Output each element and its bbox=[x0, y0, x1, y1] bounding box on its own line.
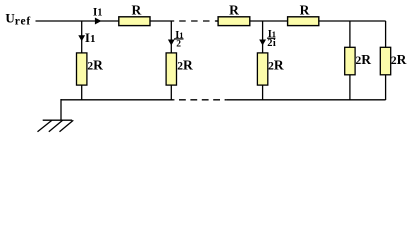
svg-text:2R: 2R bbox=[177, 57, 193, 72]
label fraction I1/2i at node C bbox=[267, 29, 276, 49]
resistor R3 (top, horizontal) bbox=[288, 17, 319, 26]
wire bottom bus solid right bbox=[226, 99, 386, 101]
wire top bus dashed middle bbox=[174, 20, 217, 22]
svg-text:I1: I1 bbox=[93, 7, 102, 19]
resistor 2R D (vertical) bbox=[345, 47, 355, 75]
wire vertical lead node B bbox=[170, 21, 172, 100]
current arrow I1 down at node A bbox=[78, 35, 85, 41]
svg-text:R: R bbox=[300, 2, 310, 17]
resistor 2R A (vertical) bbox=[77, 53, 87, 85]
current arrow I1/2 down at node B bbox=[168, 40, 175, 46]
svg-text:R: R bbox=[229, 2, 239, 17]
svg-text:R: R bbox=[132, 2, 142, 17]
svg-text:2R: 2R bbox=[268, 57, 284, 72]
wire vertical lead node A bbox=[81, 21, 83, 100]
svg-text:2R: 2R bbox=[87, 57, 103, 72]
wire vertical lead node D bbox=[349, 21, 351, 100]
label fraction I1/2 at node B bbox=[174, 30, 183, 50]
resistor 2R C (vertical) bbox=[257, 53, 267, 85]
current arrow I1 on top wire bbox=[95, 18, 102, 25]
svg-text:2R: 2R bbox=[391, 52, 407, 67]
resistor 2R B (vertical) bbox=[166, 53, 176, 85]
wire bottom bus solid left bbox=[61, 99, 173, 101]
resistor 2R E (vertical) bbox=[380, 47, 390, 75]
svg-text:2: 2 bbox=[176, 40, 181, 50]
svg-text:I1: I1 bbox=[85, 30, 96, 45]
wire vertical lead node C bbox=[262, 21, 264, 100]
wire bottom bus dashed middle bbox=[173, 99, 226, 101]
wire vertical lead node E bbox=[385, 21, 387, 100]
resistor R2 (top, horizontal) bbox=[218, 17, 250, 26]
svg-text:2i: 2i bbox=[267, 38, 276, 49]
current arrow I1/2i down at node C bbox=[259, 40, 266, 46]
ground bbox=[38, 99, 74, 132]
svg-text:2R: 2R bbox=[356, 52, 372, 67]
resistor R1 (top, horizontal) bbox=[119, 17, 150, 26]
wire top bus solid left bbox=[36, 20, 175, 22]
wire top bus solid right bbox=[216, 20, 386, 22]
